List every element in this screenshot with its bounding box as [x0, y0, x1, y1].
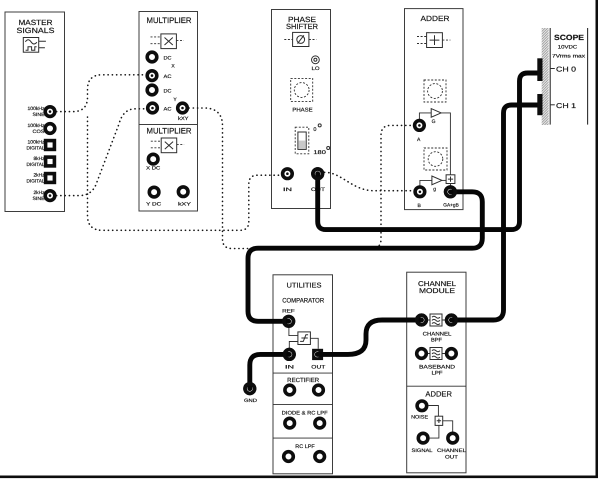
connector diode lpf out — [315, 418, 325, 428]
divider utilities 3 — [273, 437, 333, 439]
cable comparator OUT to channel BPF in — [317, 320, 421, 354]
label CHANNEL MODULE — [418, 281, 456, 295]
connector channel BPF out — [447, 315, 457, 325]
connector comparator OUT (square plug) — [311, 349, 325, 371]
wire summer to channel out — [443, 421, 453, 432]
trimmer LO — [312, 56, 320, 72]
wire comparator box to IN — [289, 342, 298, 349]
connector X DC (top mult) — [147, 52, 172, 62]
svg-text:DIODE & RC LPF: DIODE & RC LPF — [282, 410, 328, 416]
connector diode lpf in — [285, 418, 295, 428]
svg-text:7Vrms max: 7Vrms max — [552, 54, 586, 60]
svg-text:180: 180 — [313, 150, 326, 156]
connector 100kHz SINE — [28, 106, 55, 118]
svg-text:10VDC: 10VDC — [558, 45, 578, 51]
svg-text:AC: AC — [164, 74, 172, 80]
module PHASE SHIFTER panel — [272, 10, 331, 209]
svg-text:DC: DC — [164, 89, 172, 95]
connector phase OUT — [311, 169, 325, 193]
connector baseband LPF out — [447, 349, 457, 359]
icon master signals source (sine/square box) — [23, 38, 46, 53]
summer box (channel adder) — [435, 416, 443, 425]
svg-text:GA+gB: GA+gB — [443, 202, 459, 208]
svg-text:Y DC: Y DC — [146, 202, 162, 208]
connector rc lpf out — [315, 452, 325, 462]
svg-text:DC: DC — [164, 56, 172, 62]
divider utilities 1 — [273, 372, 333, 374]
knob adder G — [424, 80, 446, 102]
module MASTER SIGNALS panel — [5, 12, 65, 212]
svg-text:PHASE: PHASE — [292, 107, 313, 113]
plug rim comparator IN — [285, 350, 295, 360]
connector kXY (bottom mult) — [178, 187, 192, 208]
svg-text:SINE: SINE — [33, 112, 45, 118]
svg-text:CH 1: CH 1 — [556, 103, 576, 110]
svg-text:ADDER: ADDER — [425, 389, 452, 398]
knob adder g — [424, 148, 447, 170]
tick CH0 — [550, 68, 555, 70]
plug rim phase OUT — [313, 169, 323, 179]
svg-text:OUT: OUT — [311, 364, 325, 370]
connector rc lpf in — [284, 452, 294, 462]
wire summer to signal — [429, 425, 439, 438]
wire REF to comparator box — [289, 327, 298, 335]
label BASEBAND LPF — [419, 365, 455, 377]
svg-text:DIGITAL: DIGITAL — [27, 179, 45, 185]
svg-text:100kHz: 100kHz — [28, 106, 46, 112]
module MULTIPLIER (bottom) panel — [139, 125, 198, 212]
svg-text:MULTIPLIER: MULTIPLIER — [147, 127, 192, 136]
svg-text:100kHz: 100kHz — [28, 140, 46, 146]
wire comparator box to OUT — [310, 338, 318, 348]
icon phase shifter phi box — [284, 32, 316, 46]
label CHANNEL BPF — [423, 331, 452, 343]
comparator icon box — [298, 332, 311, 345]
wire noise to summer — [428, 406, 438, 417]
wire dotted 2kHz SINE to multiplier Y AC — [57, 109, 147, 196]
svg-text:UTILITIES: UTILITIES — [287, 282, 322, 289]
svg-text:GND: GND — [244, 398, 258, 404]
plug rim comparator REF — [284, 317, 294, 327]
svg-text:0: 0 — [313, 127, 316, 133]
connector baseband LPF in — [417, 349, 427, 359]
divider channel module — [407, 385, 466, 387]
connector adder B — [415, 187, 425, 209]
connector rectifier out — [314, 385, 324, 395]
plug scope CH1 — [537, 94, 542, 115]
svg-text:COMPARATOR: COMPARATOR — [282, 298, 324, 305]
svg-text:SINE: SINE — [33, 196, 45, 202]
connector 8kHz DIGITAL — [27, 156, 55, 168]
connector Y AC (top mult) — [148, 103, 172, 113]
connector SIGNAL — [412, 433, 433, 454]
amplifier g triangle and summer box — [420, 175, 455, 193]
scope patch strip (hatched) — [542, 28, 549, 125]
svg-text:kXY: kXY — [178, 116, 189, 122]
switch 0/180 toggle — [295, 124, 330, 156]
svg-text:REF: REF — [282, 309, 295, 315]
cable GND to comparator IN — [250, 354, 289, 388]
svg-text:ADDER: ADDER — [421, 14, 451, 23]
svg-text:NOISE: NOISE — [411, 414, 429, 420]
tick CH1 — [550, 104, 555, 106]
svg-text:G: G — [432, 119, 436, 125]
icon multiplier X box (top) — [151, 34, 184, 49]
connector rectifier in — [285, 385, 295, 395]
svg-text:CH 0: CH 0 — [556, 67, 576, 74]
connector GND — [244, 384, 258, 404]
svg-text:CHANNEL: CHANNEL — [437, 448, 466, 454]
scope left rail line — [549, 28, 551, 125]
module MULTIPLIER (top) panel — [139, 12, 198, 125]
connector CHANNEL OUT — [437, 433, 466, 460]
knob PHASE — [291, 78, 313, 113]
module UTILITIES panel — [273, 275, 333, 474]
connector 2kHz DIGITAL — [27, 173, 55, 185]
connector adder A — [415, 121, 425, 143]
svg-text:kXY: kXY — [178, 202, 192, 208]
connector comparator IN — [285, 350, 295, 371]
amplifier G triangle and wiring — [419, 109, 450, 175]
svg-text:IN: IN — [285, 364, 295, 370]
icon adder plus box — [417, 33, 450, 48]
icon baseband LPF filter box — [428, 348, 446, 360]
svg-text:BPF: BPF — [431, 337, 442, 343]
svg-text:CHANNEL: CHANNEL — [418, 281, 456, 288]
plug rim GND — [245, 384, 255, 394]
module ADDER panel — [405, 9, 464, 210]
cable phase OUT to scope CH0 — [318, 73, 539, 230]
svg-text:g: g — [433, 186, 436, 192]
label MASTER SIGNALS — [17, 18, 55, 35]
wire dotted kXY to adder A — [189, 108, 413, 249]
cable channel BPF out to scope CH1 — [451, 105, 539, 320]
connector Y DC (bottom mult) — [146, 187, 162, 207]
svg-text:8kHz: 8kHz — [34, 156, 46, 162]
svg-text:SHIFTER: SHIFTER — [286, 22, 319, 31]
icon channel BPF filter box — [428, 314, 446, 326]
plug rim channel BPF in — [417, 315, 427, 325]
svg-text:100kHz: 100kHz — [28, 123, 46, 129]
scope right rail line — [587, 28, 589, 125]
svg-text:COS: COS — [33, 129, 45, 135]
svg-text:IN: IN — [283, 187, 293, 193]
svg-text:SIGNALS: SIGNALS — [17, 26, 55, 35]
label PHASE SHIFTER — [286, 15, 319, 31]
svg-text:LPF: LPF — [432, 371, 443, 377]
plug scope CH0 — [537, 58, 542, 81]
module SCOPE — [542, 28, 588, 125]
icon multiplier X box (bottom) — [151, 138, 184, 153]
plug rim channel BPF out — [447, 315, 457, 325]
svg-text:DIGITAL: DIGITAL — [27, 146, 45, 152]
connector 100kHz DIGITAL — [27, 140, 55, 152]
svg-text:MULTIPLIER: MULTIPLIER — [147, 16, 192, 25]
svg-text:SCOPE: SCOPE — [554, 33, 584, 42]
svg-text:RC LPF: RC LPF — [295, 444, 315, 450]
svg-text:2kHz: 2kHz — [34, 173, 46, 179]
connector kXY output (top mult) — [178, 103, 190, 122]
connector comparator REF — [284, 317, 294, 327]
svg-text:AC: AC — [164, 107, 172, 113]
connector NOISE — [411, 401, 429, 420]
svg-text:DIGITAL: DIGITAL — [27, 162, 45, 168]
svg-text:X DC: X DC — [146, 166, 161, 172]
wire dotted 100kHz SINE branch to phase shifter IN — [88, 117, 281, 230]
svg-text:OUT: OUT — [445, 455, 458, 461]
connector phase IN — [283, 169, 293, 193]
connector channel BPF in — [417, 315, 427, 325]
plug rim adder GA+gB — [446, 187, 456, 197]
svg-text:SIGNAL: SIGNAL — [412, 448, 433, 454]
cable adder GA+gB to comparator REF — [248, 192, 482, 321]
connector X DC (bottom mult) — [146, 154, 161, 171]
connector adder GA+gB output — [443, 187, 459, 208]
connector Y DC (top mult) — [147, 85, 172, 95]
svg-text:MODULE: MODULE — [419, 288, 455, 295]
module CHANNEL MODULE panel — [407, 272, 466, 473]
svg-text:LO: LO — [312, 66, 320, 72]
connector 2kHz SINE — [33, 190, 55, 202]
svg-text:RECTIFIER: RECTIFIER — [287, 377, 320, 384]
divider utilities 2 — [273, 404, 333, 406]
wire dotted phase OUT to adder B — [325, 172, 414, 190]
connector X AC (top mult) — [147, 71, 172, 81]
wire dotted 100kHz SINE to multiplier X AC — [57, 75, 146, 112]
connector 100kHz COS — [28, 123, 55, 135]
svg-text:2kHz: 2kHz — [34, 190, 46, 196]
